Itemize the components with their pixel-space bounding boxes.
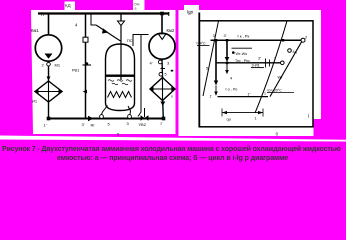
junction square bottom-left [47, 117, 51, 121]
caption line 1 [2, 145, 341, 154]
vessel right leg [128, 106, 131, 115]
junction square top [160, 12, 164, 16]
vapor outlet line [133, 35, 149, 47]
bypass line to vessel [91, 14, 96, 26]
liquid drain vertical [138, 35, 141, 117]
white tab 1 [65, 2, 76, 11]
down arrow 2 [226, 41, 228, 58]
svg-text:Wт: Wт [278, 76, 283, 80]
vessel left leg [102, 106, 108, 115]
svg-text:УВ2: УВ2 [139, 122, 147, 127]
svg-text:t=4°С: t=4°С [197, 42, 207, 46]
check valve line [120, 14, 122, 22]
left saturation branch [203, 21, 219, 96]
compressor KM2 suction line [161, 14, 163, 34]
flag valve RV1 [83, 90, 87, 94]
evaporator cross arrows [34, 89, 39, 93]
KM1 inner triangle [45, 54, 53, 59]
svg-text:4': 4' [150, 61, 153, 66]
KM2 discharge line [161, 59, 164, 77]
KM1 discharge line [48, 61, 50, 81]
svg-text:1': 1' [44, 123, 47, 128]
svg-text:Ад: Ад [293, 50, 297, 54]
svg-text:Км1: Км1 [31, 28, 39, 33]
svg-text:Rг: Rг [91, 123, 96, 128]
arrow into evaporator [47, 77, 51, 81]
junction square bottom-right [162, 117, 166, 121]
point 2 circle [301, 38, 305, 42]
liquid squiggles [108, 80, 132, 85]
bowtie valve RV2 [141, 115, 145, 121]
flow arrow on bottom wire [88, 116, 94, 122]
svg-text:1: 1 [264, 92, 266, 96]
svg-text:1: 1 [255, 117, 257, 121]
overline label w [232, 47, 253, 49]
condensation line tk Pk [211, 39, 304, 41]
node circle junction [159, 73, 163, 77]
svg-text:3': 3' [224, 33, 227, 38]
svg-text:t о , Ро: t о , Ро [226, 88, 238, 92]
bottom wire [49, 118, 164, 120]
svg-text:3': 3' [82, 122, 85, 127]
svg-text:РВ1: РВ1 [72, 69, 79, 73]
white block B (diagram) [179, 10, 322, 119]
point circle on branch [288, 49, 292, 53]
condenser cross arrows [149, 87, 154, 91]
node circle 3 [158, 60, 162, 64]
evaporator I1 diamond [35, 81, 62, 102]
svg-text:И1: И1 [32, 99, 38, 104]
svg-text:h: h [41, 12, 44, 18]
right saturation branch [255, 21, 287, 113]
svg-text:б: б [276, 132, 279, 137]
node tick [161, 68, 166, 70]
y axis [198, 13, 200, 127]
svg-text:КД: КД [65, 3, 71, 8]
condenser outlet [162, 101, 165, 119]
svg-text:М1: М1 [55, 63, 61, 68]
condenser KD diamond [150, 78, 175, 101]
svg-text:t к , Рк: t к , Рк [238, 34, 250, 39]
compression line 1-2 [270, 40, 303, 96]
white tab 3 [184, 5, 199, 10]
small mark [171, 70, 173, 72]
diagonal pipe to vessel [96, 25, 121, 41]
compressor KM1 [35, 35, 61, 61]
white tab 2 [133, 0, 145, 10]
svg-text:а: а [135, 7, 137, 11]
svg-text:tо=-20°С: tо=-20°С [268, 89, 283, 93]
dimension line qo [222, 112, 263, 114]
intermediate pressure line [216, 62, 282, 64]
svg-text:5': 5' [206, 66, 209, 71]
compressor KM1 suction line [48, 14, 50, 36]
svg-text:ПС: ПС [127, 39, 133, 43]
liquid level [106, 75, 135, 77]
valve RV2 stem [144, 108, 146, 117]
svg-text:qо: qо [227, 117, 232, 122]
svg-text:5: 5 [165, 73, 167, 77]
svg-text:lgр: lgр [187, 10, 194, 15]
svg-text:х: х [171, 95, 173, 99]
svg-text:1: 1 [274, 57, 276, 61]
intermediate vessel PS [106, 44, 135, 111]
compressor KM2 [149, 33, 175, 59]
square valve [83, 37, 88, 42]
node tick on branch [83, 64, 92, 66]
evaporation line to Po [218, 96, 269, 98]
check valve triangle [118, 21, 125, 26]
white band strip [0, 136, 346, 142]
svg-text:3-И1: 3-И1 [252, 63, 260, 67]
svg-text:3'': 3'' [258, 57, 262, 61]
frame [199, 21, 313, 127]
valve 4 branch vertical [85, 14, 87, 119]
coil [108, 92, 132, 98]
svg-text:Wт-Wо: Wт-Wо [236, 52, 248, 56]
KM2 inner triangle [158, 34, 166, 40]
evaporator outlet line [48, 102, 50, 119]
svg-text:1': 1' [210, 95, 213, 99]
white block A (schematic) [31, 10, 176, 134]
vessel center pipe [120, 26, 122, 81]
top wire [38, 12, 169, 14]
tick at wire right end [168, 12, 170, 16]
down arrow 1 [215, 41, 217, 81]
svg-text:Км2: Км2 [167, 28, 175, 33]
svg-text:1'': 1'' [248, 93, 252, 97]
ticks at 3'' cluster [265, 59, 267, 68]
node 2 circle [47, 62, 51, 66]
caption line 2 [57, 154, 288, 163]
